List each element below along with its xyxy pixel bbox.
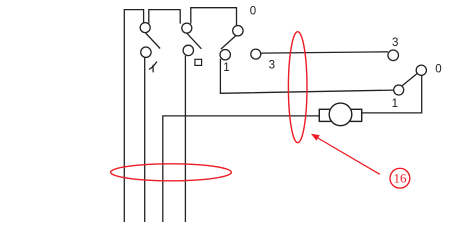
3-way switch S3b terminal 0 [416,65,426,75]
wire W5: switch ロ bottom terminal down to cable bundle [184,56,186,222]
svg-text:3: 3 [269,60,275,72]
3-way switch S3a blade (1 to 0) [221,35,237,49]
3-way switch S3a terminal 0 [233,26,243,36]
lamp LP1 body [329,103,352,126]
red highlight ellipse around 3-core cable [288,32,307,143]
pin label 1 of S3a [223,62,229,74]
callout number 16 (circled) [390,168,410,188]
switch S-i (イ) top terminal [140,23,150,33]
pin label 3 of S3a [269,60,275,72]
wire W8: 3-way S3b terminal 0 down and left to lamp right terminal [362,75,422,113]
3-way switch S3a terminal 1 [220,50,230,60]
switch S-ro (ロ) blade [187,33,202,49]
wire W3: switch ロ top terminal over to 3-way switch S3a terminal 0 [191,8,237,26]
switch S-ro (ロ) bottom terminal [183,45,193,55]
wire W7: traveler between terminal 3 of S3a and terminal 3 of S3b [261,52,388,53]
3-way switch S3b blade (1 to 0) [402,74,417,86]
lamp LP1 left terminal block [319,109,331,121]
wire W6: 3-way S3a terminal 1 down and across to 3-way S3b terminal 1 [220,59,394,94]
svg-text:1: 1 [223,62,229,74]
svg-text:3: 3 [392,37,398,49]
switch S-i (イ) blade [146,33,161,49]
svg-text:1: 1 [392,98,398,110]
label ロ for switch S-ro [195,59,202,65]
3-way switch S3b terminal 1 [394,85,404,95]
label イ for switch S-i [150,62,157,72]
3-way switch S3b terminal 3 [388,50,399,61]
wire W2: switch イ top terminal over to switch ロ top terminal [149,10,180,24]
pin label 0 of S3a [250,6,256,18]
wire W4: switch イ bottom terminal down to cable bundle [144,57,146,222]
wire W9: lamp left terminal across and down to cable bundle [163,116,319,222]
red callout arrow pointing at 3-core cable [311,134,380,175]
switch S-ro (ロ) top terminal [182,23,192,33]
svg-text:0: 0 [250,6,256,18]
wire W1: source feed up left side, over to switch イ top terminal [124,10,143,222]
svg-text:16: 16 [394,171,408,186]
pin label 1 of S3b [392,98,398,110]
red highlight ellipse around 4-wire bundle [111,164,232,181]
svg-text:0: 0 [435,63,441,75]
3-way switch S3a terminal 3 [251,49,261,59]
pin label 3 of S3b [392,37,398,49]
lamp LP1 right terminal block [350,109,362,121]
switch S-i (イ) bottom terminal [141,47,151,57]
pin label 0 of S3b [435,63,441,75]
